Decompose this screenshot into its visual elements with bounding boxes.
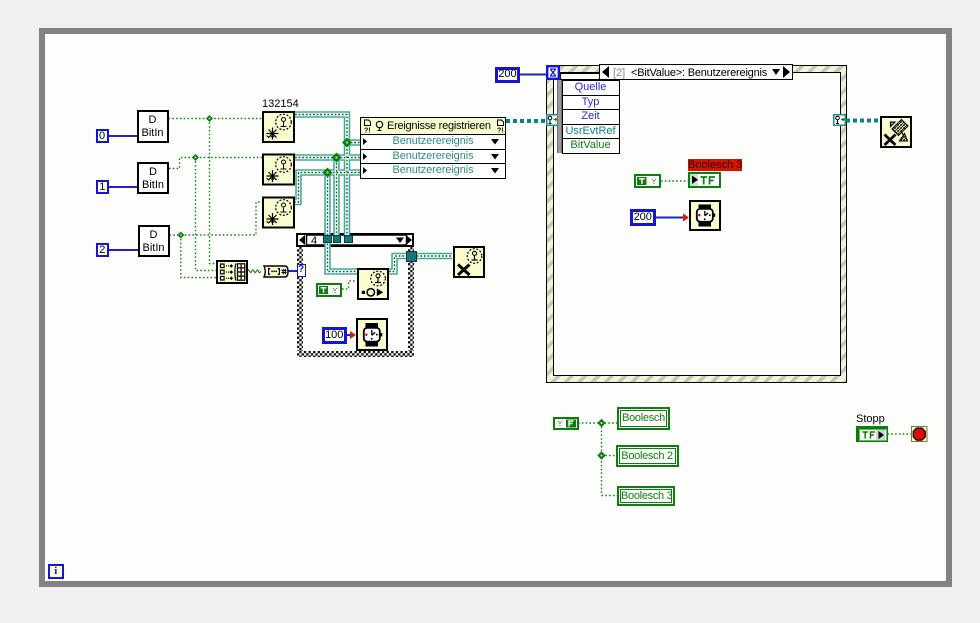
constant F bottom (553, 417, 579, 430)
wire blue 2 to BitIn3 (108, 249, 138, 251)
wire dashed teal event structure to unregister (846, 119, 881, 123)
node create user event 2 (262, 153, 295, 186)
indicator Boolesch 3 (617, 486, 675, 506)
constant 1 (96, 180, 109, 194)
case structure border bottom (297, 351, 415, 358)
constant 2 (96, 243, 109, 257)
wire teal event-reg node1 to tunnel3 and register row1 (outer) (294, 115, 452, 272)
tunnel event timeout hourglass (546, 65, 560, 80)
node BitIn3 (138, 225, 170, 257)
coercion arrow red wait event (683, 214, 689, 222)
wire green dotted BitIn1 out (169, 118, 263, 120)
indicator Boolesch 2 (616, 445, 679, 467)
indicator stop sign (911, 426, 928, 442)
case structure border left (297, 247, 304, 357)
tunnel case selector ? (297, 264, 306, 277)
tunnel event dynamic left (546, 114, 559, 126)
wire teal white core pass (294, 115, 452, 272)
wire blue 1 to BitIn2 (108, 186, 138, 188)
node event data (557, 80, 620, 153)
wire green dotted T to generate user event (342, 281, 357, 289)
coercion arrow red wait case (350, 331, 356, 339)
tunnel case top 3 (344, 235, 353, 243)
event structure header (599, 64, 793, 80)
wire green dotted BitIn1 branch down to build array (210, 119, 217, 264)
junction F wire top (597, 419, 605, 427)
wire blue 100 to wait ms case (346, 334, 350, 336)
label Stopp (856, 413, 885, 425)
junction teal wire row1 (342, 138, 352, 148)
wire green dotted BitIn3 out (170, 202, 263, 235)
event header left track (560, 73, 601, 80)
wire green dotted F to Boolesch indicators (578, 423, 617, 496)
node build array (216, 260, 248, 284)
junction F wire middle (597, 451, 605, 459)
junction teal wire row3 (323, 168, 333, 178)
node destroy user event (453, 246, 485, 278)
constant 200 event (630, 209, 656, 226)
wire blue 0 to BitIn1 (108, 135, 137, 137)
wire green zigzag build array to array-to-number (247, 270, 261, 273)
wire green dotted BitIn2 branch down to build array (196, 158, 217, 271)
wire blue 200 to timeout hourglass (520, 74, 546, 76)
wire green dotted BitIn3 branch down to build array (181, 235, 216, 278)
junction BitIn3 (177, 231, 184, 238)
indicator Boolesch (617, 407, 670, 430)
tunnel case top 2 (333, 235, 341, 243)
control Stopp TF (856, 426, 888, 442)
constant 100 (322, 327, 347, 344)
local variable Boolesch 3 TF (688, 172, 721, 188)
wire blue 200 to wait ms event (655, 217, 684, 219)
node generate user event (357, 268, 389, 300)
junction teal wire row2 (332, 153, 342, 163)
event structure border (546, 65, 847, 383)
wire green dotted BitIn2 out (169, 158, 262, 169)
label Boolesch 3 local (688, 159, 742, 171)
node create user event 3 (262, 196, 295, 229)
case structure border right (408, 247, 415, 357)
tunnel event dynamic right (833, 114, 846, 126)
node register for events (360, 117, 506, 180)
constant T case (316, 283, 342, 297)
tunnel case right output (406, 251, 417, 262)
case structure selector bar (296, 233, 414, 247)
junction BitIn1 (206, 115, 213, 122)
node BitIn2 (137, 162, 169, 194)
constant 0 (96, 129, 109, 143)
wire green dotted Stopp to stop sign (888, 433, 912, 435)
wire blue array-to-number to case selector (288, 270, 297, 272)
junction BitIn2 (192, 154, 199, 161)
wire dashed teal register output to event structure (506, 119, 547, 123)
icon loop i (48, 564, 64, 579)
tunnel case top 1 (323, 235, 332, 243)
node unregister for events (880, 116, 912, 148)
node boolean array to number (261, 265, 289, 278)
wire green dotted T to Boolesch3 local (661, 180, 688, 182)
constant 200 top (495, 67, 520, 83)
node wait ms event (689, 200, 721, 231)
wire teal dotted center pass (294, 115, 452, 272)
node BitIn1 (137, 110, 169, 143)
label 132154 (262, 98, 299, 110)
node create user event 1 (262, 111, 295, 143)
constant T event (634, 174, 661, 188)
node wait ms case (356, 318, 388, 351)
